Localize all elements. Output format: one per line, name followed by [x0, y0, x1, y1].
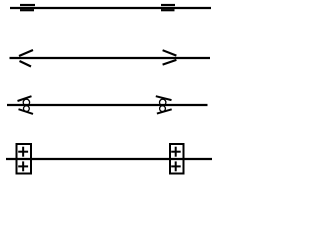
node: left locus on line 3, lower slash	[19, 109, 34, 114]
node: plus sign in lower cell of right box	[171, 161, 181, 171]
node: left locus on line 3, lower circle	[24, 106, 30, 112]
wire: horizontal line 4 (bottom chromosome line)	[6, 158, 212, 160]
node: left locus tick on line 2, lower slanted stroke	[20, 61, 32, 67]
node: left locus on line 3, upper slash	[18, 96, 32, 101]
node: right locus marks on line 1, lower short bar	[161, 9, 175, 11]
node: left locus on line 3, upper circle	[23, 99, 29, 105]
node: right locus marks on line 1, upper short bar	[161, 4, 175, 6]
node: left locus box on line 4	[17, 144, 32, 174]
node: right locus on line 3, lower circle	[160, 106, 166, 112]
node: plus sign in lower cell of left box	[18, 161, 28, 171]
node: right locus on line 3, lower slash	[157, 109, 172, 113]
node: plus sign in upper cell of right box	[171, 147, 181, 157]
node: right locus tick on line 2, lower slanted stroke	[163, 60, 177, 65]
node: right locus on line 3, upper circle	[160, 99, 166, 105]
node: right locus tick on line 2, upper slanted stroke	[163, 50, 177, 55]
node: plus sign in upper cell of left box	[18, 147, 28, 157]
node: left locus tick on line 2, upper slanted stroke	[19, 50, 33, 56]
node: right locus on line 3, upper slash	[156, 96, 172, 100]
node: left locus marks on line 1, lower short bar	[20, 9, 34, 11]
node: right locus box on line 4	[170, 144, 184, 174]
node: left locus marks on line 1, upper short bar	[20, 4, 35, 6]
wire: horizontal line 2	[10, 57, 211, 59]
wire: horizontal line 1 (top chromosome line)	[10, 7, 211, 9]
wire: horizontal line 3	[7, 104, 208, 106]
